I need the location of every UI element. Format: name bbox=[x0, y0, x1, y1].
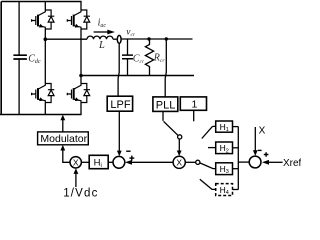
transistor Q4 (bottom-right IGBT+diode) bbox=[67, 84, 90, 103]
svg-text:PLL: PLL bbox=[156, 99, 176, 111]
wire block-1 output stub bbox=[193, 110, 195, 121]
summer S1 bbox=[113, 156, 125, 168]
node B (right leg midpoint) bbox=[79, 74, 83, 78]
1/Vdc input arrow bbox=[75, 173, 77, 187]
switch stub H2 bbox=[208, 147, 216, 149]
svg-text:X: X bbox=[259, 126, 266, 137]
switch pole contact SW1 bbox=[178, 135, 182, 139]
switch blade PLL select bbox=[164, 121, 178, 135]
switch blade to H4 bbox=[200, 179, 216, 189]
block H1 bbox=[216, 121, 233, 132]
node PLL tap junction dot bbox=[165, 37, 168, 40]
svg-text:1/Vdc: 1/Vdc bbox=[63, 188, 98, 200]
switch blade to H1 bbox=[202, 126, 216, 138]
transistor Q1 (top-left IGBT+diode) bbox=[32, 10, 55, 29]
wire LPF to summer S1 bbox=[118, 111, 120, 151]
svg-text:Modulator: Modulator bbox=[40, 133, 87, 145]
plus sign S2 bbox=[264, 152, 269, 157]
minus sign S1 bbox=[126, 150, 130, 152]
wire H3 right stub bbox=[233, 168, 239, 170]
transistor Q2 (top-right IGBT+diode) bbox=[67, 10, 90, 29]
wire H1 right stub bbox=[233, 126, 239, 128]
wire PLL output stub bbox=[162, 111, 164, 120]
node A (left leg midpoint) bbox=[44, 37, 48, 41]
summer S2 bbox=[249, 156, 261, 168]
svg-text:1: 1 bbox=[192, 99, 198, 111]
resistor R load bbox=[145, 39, 153, 76]
svg-text:L: L bbox=[98, 40, 105, 51]
block H_i bbox=[89, 155, 108, 168]
wire H bus bbox=[237, 127, 239, 190]
wire multiplier M2 to summer S1 bbox=[132, 161, 174, 163]
LPF block bbox=[107, 96, 132, 111]
wire H_i to multiplier M1 bbox=[81, 161, 89, 163]
capacitor Cdc plates bbox=[13, 55, 27, 59]
capacitor C load plates bbox=[122, 55, 133, 59]
minus sign S2 bbox=[258, 149, 262, 151]
block H4 (dashed) bbox=[216, 184, 233, 196]
X input wire bbox=[254, 127, 256, 151]
Modulator block bbox=[38, 132, 89, 145]
multiplier M2 bbox=[173, 156, 185, 168]
node C top junction dot bbox=[147, 37, 150, 40]
svg-text:LPF: LPF bbox=[110, 99, 130, 111]
block H2 bbox=[216, 142, 233, 154]
svg-text:Xref: Xref bbox=[283, 158, 301, 169]
top DC rail bbox=[1, 1, 81, 3]
probe ellipse v_cr bbox=[117, 35, 121, 43]
current arrow i_ac bbox=[94, 31, 108, 33]
block H3 bbox=[216, 163, 233, 175]
wire bridge output to inductor bbox=[45, 38, 87, 40]
capacitor Cdc leads bbox=[18, 2, 20, 115]
PLL block bbox=[153, 97, 178, 112]
wire S1 to H_i bbox=[108, 161, 113, 163]
wire Modulator to bridge bbox=[62, 120, 64, 132]
wire probe to load bbox=[121, 38, 192, 40]
capacitor C load leads bbox=[127, 39, 129, 76]
bottom DC rail bbox=[0, 114, 82, 116]
wire H4 right stub bbox=[233, 189, 239, 191]
wire probe down to LPF (with crossover kink) bbox=[118, 43, 119, 96]
svg-text:X: X bbox=[176, 157, 182, 167]
wire bus to summer S2 bbox=[238, 161, 249, 163]
block 1 bbox=[180, 97, 206, 110]
wire load return rail bbox=[81, 75, 194, 77]
plus sign S1 bbox=[129, 156, 134, 161]
wire M1 to Modulator bbox=[63, 150, 70, 162]
wire tap down to PLL (with crossover kink) bbox=[165, 39, 166, 97]
svg-text:X: X bbox=[73, 157, 79, 167]
wire SW1 to M2 bbox=[178, 139, 180, 151]
wire left leg bbox=[44, 2, 46, 115]
wire coil to probe bbox=[113, 38, 117, 40]
wire H2 right stub bbox=[233, 147, 239, 149]
switch blade to H3 (selected) bbox=[200, 163, 216, 169]
wire right leg bbox=[80, 2, 82, 115]
wire M2 to switch pole SW2 bbox=[185, 161, 195, 163]
multiplier M1 bbox=[70, 157, 81, 168]
inductor L bbox=[87, 36, 113, 39]
left DC rail bbox=[0, 2, 2, 115]
Xref input wire bbox=[269, 161, 283, 163]
switch pole contact SW2 bbox=[196, 160, 200, 164]
transistor Q3 (bottom-left IGBT+diode) bbox=[32, 84, 55, 103]
